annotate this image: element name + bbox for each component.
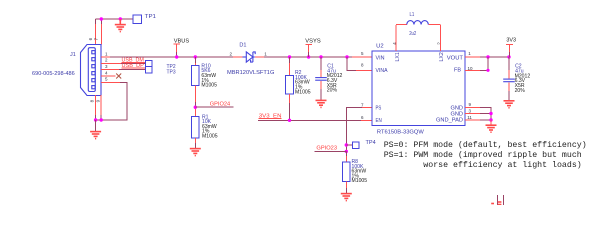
svg-text:690-005-298-486: 690-005-298-486 [32,71,75,77]
wire cutoff bottom right [503,195,505,205]
ground R1 [190,149,201,156]
svg-text:D1: D1 [239,43,246,49]
svg-text:GND_PAD: GND_PAD [436,118,463,124]
resistor R1 [191,117,199,139]
wire R10 to R1 [194,86,196,103]
wire VBUS bus J1 to D1 [110,56,233,58]
svg-text:LX2: LX2 [439,52,445,61]
svg-text:M1005: M1005 [202,134,218,140]
wire R1 to ground [194,138,196,143]
wire FB [465,69,480,71]
node junction VINA [345,55,348,58]
svg-text:RT6150B-33GQW: RT6150B-33GQW [377,130,425,136]
wire EN [258,119,361,121]
wire cutoff bottom left [497,195,499,205]
svg-text:20%: 20% [327,88,338,94]
node junction VBUS [175,55,178,58]
svg-text:VBUS: VBUS [174,38,190,44]
svg-text:TP4: TP4 [366,140,376,146]
wire D1 cathode stub [255,56,264,58]
pin 4 stub [101,75,116,77]
svg-text:TP1: TP1 [145,14,156,20]
node junction GND2 [489,118,492,121]
node junction top1 [100,17,103,20]
testpoint TP1 [133,15,142,23]
pin 3 stub [101,69,119,71]
ground C1 [316,100,327,107]
node junction GPIO24 [194,106,197,109]
node junction R10 top [194,55,197,58]
svg-text:VOUT: VOUT [447,55,464,61]
wire LX1 up [395,25,397,51]
wire VINA branch [347,57,356,70]
testpoint TP4 [353,142,360,149]
svg-text:M1005: M1005 [295,89,311,95]
wire GND pin 9 [465,107,480,109]
ground U2 [486,125,497,132]
svg-text:GPIO23: GPIO23 [316,145,337,151]
resistor R10 [191,66,199,86]
svg-text:TP3: TP3 [167,69,176,75]
pin 5 stub [101,81,120,83]
connector J1 [81,45,102,96]
inductor L1 [396,24,440,26]
svg-text:11: 11 [467,115,472,120]
wire PS [362,107,372,109]
testpoint TP3 [146,67,152,73]
wire shield stub left [95,19,97,24]
svg-text:MBR120VLSFT1G: MBR120VLSFT1G [227,70,274,76]
svg-text:20%: 20% [515,88,526,94]
wire GND_PAD pin 11 [465,119,480,121]
wire USB_DM to TP2 [121,62,146,64]
svg-text:M1005: M1005 [352,178,368,184]
wire VBUS to R10 [194,57,196,63]
wire GND tie [480,108,491,121]
node junction bottom left [94,118,97,121]
testpoint TP2 [146,60,152,66]
svg-text:VSYS: VSYS [305,38,321,44]
ground top (TP1 net) [115,19,126,32]
svg-text:L1: L1 [410,12,415,18]
wire R2 to EN [289,94,291,103]
wire USB_DP to TP3 [119,69,146,71]
wire D1 to U2 VIN [264,56,352,58]
resistor R8 [342,162,350,182]
node junction GPIO23 [345,150,348,153]
wire GND pin 3 [465,113,480,115]
svg-text:VIN: VIN [376,55,385,61]
node junction C1 [319,55,322,58]
node junction R2 [288,55,291,58]
no-connect X pin4 [116,74,121,79]
node junction GND1 [489,112,492,115]
node junction FB tie [486,55,489,58]
wire VOUT to 3V3 [465,56,480,58]
node junction TP4 [345,143,348,146]
svg-text:FB: FB [454,68,461,74]
svg-text:U2: U2 [376,44,384,50]
svg-text:LX1: LX1 [395,52,401,61]
capacitor C1 [320,57,322,70]
svg-text:2u2: 2u2 [409,31,416,37]
svg-text:PS=1: PWM mode (improved rippl: PS=1: PWM mode (improved ripple but much [384,150,582,160]
ground J1 [95,120,97,131]
wire R8 to ground [345,182,347,189]
wire D1 anode stub [233,56,243,58]
pin 2 stub [101,62,121,64]
wire GPIO24 [195,106,233,108]
ground R8 [341,194,352,201]
wire pin5 loop [96,82,127,120]
svg-text:GPIO24: GPIO24 [210,101,230,107]
svg-text:3V3: 3V3 [506,38,516,44]
resistor R2 [289,57,291,63]
svg-text:J1: J1 [70,52,76,58]
node junction EN-R2 [288,119,291,122]
wire top shield bus [96,18,134,20]
ground cutoff partial [491,202,501,205]
svg-text:VINA: VINA [376,68,388,74]
node junction VSYS [307,55,310,58]
wire shield stub right [100,19,102,24]
svg-text:EN: EN [376,118,382,124]
wire LX2 up [439,25,441,51]
diode D1 schottky symbol [243,52,256,62]
svg-text:PS: PS [376,106,382,112]
wire shield bottom right [100,95,102,115]
svg-text:GND: GND [451,111,464,117]
node junction top2 [119,17,122,20]
capacitor C2 [508,57,510,70]
node junction bottom right [100,118,103,121]
svg-text:worse efficiency at light load: worse efficiency at light loads) [423,160,581,170]
wire PS to R8 [345,151,347,156]
svg-text:M1005: M1005 [201,83,217,89]
pin 1 stub [101,56,110,58]
IC U2 RT6150B-33GQW [372,51,465,126]
wire to TP4 [346,144,352,146]
svg-text:PS=0: PFM mode (default, best: PS=0: PFM mode (default, best efficiency… [384,140,587,150]
wire to ground U2 [490,120,492,125]
ground C2 [504,101,515,108]
wire GPIO23 [314,150,346,152]
wire shield bottom left [95,95,97,115]
wire C1 to ground [320,81,322,89]
wire C2 to ground [508,82,510,91]
node junction 3V3 [507,55,510,58]
